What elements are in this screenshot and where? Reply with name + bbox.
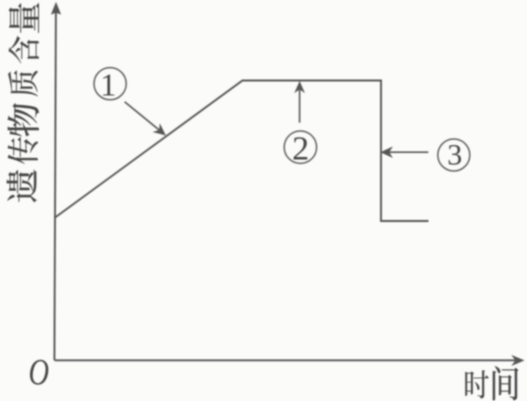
label circle 1 xyxy=(94,66,126,102)
x-axis xyxy=(55,356,524,365)
svg-text:1: 1 xyxy=(100,66,116,102)
label circle 3 xyxy=(438,139,470,172)
label circle 2 xyxy=(284,130,316,167)
x-axis label: 时间 xyxy=(465,366,518,401)
svg-text:3: 3 xyxy=(447,139,462,172)
arrow from circle 2 up to plateau xyxy=(295,82,303,123)
svg-text:O: O xyxy=(29,353,50,393)
y-axis xyxy=(52,3,60,360)
curve: rise, plateau, drop, tail xyxy=(54,81,428,222)
arrow from circle 1 to rising segment xyxy=(125,102,165,135)
svg-text:2: 2 xyxy=(292,130,309,167)
origin label O xyxy=(29,353,50,393)
y-axis label: 遗传物质含量 (rotated) xyxy=(7,3,40,202)
arrow from circle 3 left to drop segment xyxy=(382,148,429,157)
